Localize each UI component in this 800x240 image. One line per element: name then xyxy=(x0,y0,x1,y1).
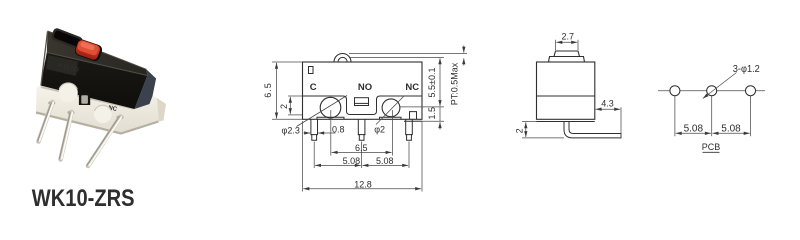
photo: black cover front face xyxy=(41,53,148,110)
front: right bottom notch xyxy=(410,112,417,120)
front view xyxy=(303,54,423,141)
front: pin 2 xyxy=(358,119,365,140)
svg-text:5.08: 5.08 xyxy=(721,123,741,134)
side: button flange xyxy=(549,57,585,63)
front: right hole circle xyxy=(382,99,400,117)
dim 6.5 bottom: extension lines xyxy=(330,110,332,156)
svg-text:5.08: 5.08 xyxy=(343,156,361,166)
side: bent pin xyxy=(564,122,621,138)
photo: left edge highlight xyxy=(41,32,48,86)
dim 2 side: extension lines xyxy=(522,121,537,123)
dim PT: top arrow xyxy=(463,46,465,53)
svg-text:2: 2 xyxy=(279,104,289,109)
dim PT: bottom arrow xyxy=(463,58,465,65)
photo: left boss on base xyxy=(59,83,78,102)
svg-text:12.8: 12.8 xyxy=(354,180,372,190)
pcb: centerline xyxy=(658,90,765,92)
photo: red button xyxy=(74,39,101,61)
dim 5.08 right: dimension line xyxy=(362,164,408,166)
dim 2.7: extension lines xyxy=(555,40,557,50)
front: NO contact window xyxy=(355,98,369,106)
svg-text:6.5: 6.5 xyxy=(355,143,368,153)
svg-text:NO: NO xyxy=(358,82,372,93)
svg-text:2.7: 2.7 xyxy=(562,32,575,42)
dim 6.5 left: extension lines xyxy=(272,61,302,63)
side: base plate line xyxy=(537,121,595,123)
front: square hole xyxy=(309,67,314,74)
top reference line operating position xyxy=(349,57,444,59)
svg-text:C: C xyxy=(310,82,317,93)
photo: pin 2 xyxy=(59,112,72,160)
svg-text:NC: NC xyxy=(405,82,419,93)
dim 1.5: bottom arrow xyxy=(439,122,441,129)
photo: pin root shadows xyxy=(48,101,55,105)
photo: square hole with terminal tab xyxy=(79,92,90,106)
svg-text:4.3: 4.3 xyxy=(601,99,614,109)
dim 12.8: dimension line xyxy=(303,188,421,190)
front: body outline xyxy=(303,62,423,119)
pcb: leader 3-phi1.2 xyxy=(703,73,737,99)
pcb: hole 2 xyxy=(707,86,717,96)
dim 6.5 left: dimension line xyxy=(276,63,278,119)
photo: button recess xyxy=(73,38,103,62)
svg-text:5.08: 5.08 xyxy=(376,156,394,166)
pcb: hole 3 xyxy=(746,86,756,96)
front: button outer arc xyxy=(334,54,351,63)
front: cavity line with centre dip xyxy=(303,96,423,115)
pcb: dim 5.08 left xyxy=(676,132,711,134)
side: internal line xyxy=(537,95,595,97)
pcb: hole center extension lines xyxy=(674,91,676,137)
front: pin 1 xyxy=(311,119,318,140)
front view dimensions xyxy=(272,46,467,192)
front: shelf under left hole xyxy=(317,117,344,119)
photo: base bottom shadow edge xyxy=(36,113,159,134)
svg-text:5.5±0.1: 5.5±0.1 xyxy=(427,68,437,98)
dim 5.5 right: dimension line xyxy=(439,58,441,106)
dim 2 left: dimension line xyxy=(289,97,291,114)
PCB view xyxy=(658,91,765,137)
svg-text:0.8: 0.8 xyxy=(332,124,345,134)
dim 0.8: arrows at pin edges xyxy=(318,132,335,134)
dim 2 side: dimension line xyxy=(525,122,527,137)
photo: white base right end face xyxy=(157,98,166,122)
side view xyxy=(537,51,622,138)
product photo: microswitch xyxy=(36,27,166,166)
front: button inner arc xyxy=(338,57,347,62)
photo: white base front face xyxy=(36,86,159,134)
front: terminal labels xyxy=(310,82,420,93)
svg-text:6.5: 6.5 xyxy=(263,82,273,98)
front dimension texts xyxy=(263,62,460,189)
svg-text:φ2.3: φ2.3 xyxy=(282,126,300,136)
svg-text:PCB: PCB xyxy=(702,142,721,152)
svg-text:PT:0.5Max: PT:0.5Max xyxy=(450,62,460,105)
leader phi2 xyxy=(376,96,405,125)
photo: front top edge highlight xyxy=(47,53,148,76)
pcb texts xyxy=(684,64,760,152)
side: button cap xyxy=(554,51,580,57)
dim 4.3: dimension line xyxy=(596,108,621,110)
pcb: hole 1 xyxy=(670,86,680,96)
photo: top rim highlight xyxy=(48,31,147,69)
svg-text:3-φ1.2: 3-φ1.2 xyxy=(733,64,760,76)
dim 6.5 bottom: dimension line xyxy=(332,151,392,153)
dim 5.08 left: dimension line xyxy=(315,164,361,166)
dim 5.08 bottom: extension lines xyxy=(313,142,315,169)
dim 4.3: extension line at pin tip xyxy=(620,107,622,138)
dim 12.8: extension lines xyxy=(302,121,304,192)
top reference line free position xyxy=(349,53,467,55)
photo: top slot hole xyxy=(50,27,83,50)
side view dimensions xyxy=(522,40,621,139)
photo: front face sheen xyxy=(46,55,78,76)
photo: shadow under cover edge xyxy=(41,87,134,109)
svg-text:WK10-ZRS: WK10-ZRS xyxy=(32,184,135,211)
photo: right boss on base xyxy=(94,105,112,123)
svg-text:1.5: 1.5 xyxy=(427,107,437,120)
dim 2 left: extension lines xyxy=(288,95,303,97)
front: shelf under right hole xyxy=(380,117,402,119)
photo: pin 3 xyxy=(87,116,122,166)
side dimension texts xyxy=(515,32,614,134)
front: left hole circle xyxy=(320,97,341,118)
svg-text:5.08: 5.08 xyxy=(684,123,704,134)
front: pin 3 xyxy=(406,119,413,140)
leader phi2.3 xyxy=(297,96,348,127)
pcb underline xyxy=(703,151,720,153)
side: body outline xyxy=(537,62,595,119)
front: right feet line xyxy=(404,120,422,122)
photo: black cover top face xyxy=(47,31,148,76)
photo: pin 1 xyxy=(38,102,54,142)
pcb: dim 5.08 right xyxy=(713,132,750,134)
dim 2.7: dimension line xyxy=(556,41,577,43)
photo: black cover right end face xyxy=(135,69,157,109)
svg-text:2: 2 xyxy=(515,128,525,133)
svg-text:φ2: φ2 xyxy=(374,124,385,134)
dim 1.5 right: extension lines xyxy=(400,106,444,108)
